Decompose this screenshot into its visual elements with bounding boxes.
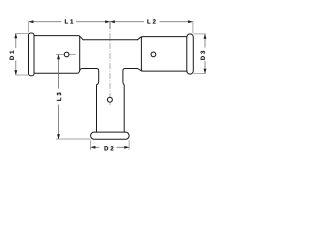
arrow L2 right: [188, 20, 193, 23]
arrow D3 bottom: [204, 69, 207, 74]
ext line right face for L2: [192, 22, 194, 34]
label L2: [147, 19, 155, 23]
label D2: [105, 146, 114, 150]
dim line L2: [110, 21, 193, 23]
ext line D1 bottom: [15, 74, 28, 76]
right end bead collar: [187, 34, 194, 74]
inspection hole right socket: [151, 52, 156, 57]
ext line D3 top: [194, 33, 206, 35]
extension lines: [15, 22, 205, 150]
right socket bottom chamfer: [138, 69, 142, 71]
left socket bottom fillet: [80, 69, 83, 71]
ext line D3 bottom: [194, 73, 206, 75]
arrow L1 left: [29, 20, 34, 23]
left socket top chamfer: [80, 36, 84, 40]
centre body bottom left edge with branch corner: [82, 69, 98, 133]
dimension lines: [16, 22, 205, 148]
arrow L3 top: [57, 55, 60, 60]
label D3: [201, 51, 205, 60]
dim line L3: [58, 55, 60, 140]
ext line D2 left: [90, 140, 92, 150]
centre body bottom right edge with branch corner: [123, 69, 138, 133]
arrow D1 top: [14, 33, 17, 38]
inspection hole bottom branch: [107, 97, 112, 102]
arrow L3 bottom: [57, 134, 60, 139]
ext line branch axis for L1/L2: [109, 22, 111, 30]
arrow L1 right: [105, 20, 110, 23]
centre body top edge: [83, 39, 137, 41]
dim line L1: [29, 21, 110, 23]
dim line D2: [91, 146, 130, 148]
dim line D3: [204, 34, 206, 74]
dim line D1: [15, 33, 17, 75]
inspection hole left socket: [64, 52, 69, 57]
bottom end bead collar: [91, 132, 130, 139]
left end bead collar: [29, 33, 35, 76]
right socket top chamfer: [137, 37, 141, 40]
label L3: [57, 93, 61, 101]
arrowheads: [14, 20, 206, 149]
arrow D1 bottom: [14, 70, 17, 75]
ext line L3 bottom: [56, 138, 90, 140]
left socket body: [34, 36, 80, 74]
arrow L2 left: [110, 20, 115, 23]
label D1: [10, 51, 14, 60]
branch centreline: [109, 23, 111, 105]
label L1: [65, 19, 73, 23]
arrow D2 right: [124, 146, 129, 149]
ext line D2 right: [128, 140, 130, 150]
ext line left face for L1: [28, 22, 30, 33]
arrow D2 left: [91, 146, 96, 149]
ext line L3 top (fitting axis): [56, 54, 76, 56]
ext line D1 top: [15, 32, 28, 34]
right socket body: [141, 37, 187, 72]
arrow D3 top: [204, 34, 207, 39]
